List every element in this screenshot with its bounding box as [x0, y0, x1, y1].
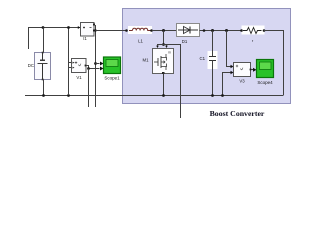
inductor L1 — [128, 26, 152, 34]
wire mosfet drain stub — [158, 45, 164, 46]
wire mosfet source to bus — [163, 74, 165, 96]
ground bus wire — [25, 95, 284, 97]
node junction scope tap — [94, 62, 97, 65]
node R left terminal — [240, 29, 243, 32]
wire V3 plus branch — [227, 31, 231, 67]
wire V1 plus stub — [69, 62, 73, 64]
DC voltage source — [35, 52, 51, 81]
svg-text:Scope1: Scope1 — [104, 76, 120, 81]
node L1 right terminal — [150, 29, 153, 32]
node junction V1 output — [87, 67, 90, 70]
node junction mosfet branch — [162, 29, 165, 32]
resistor R — [242, 26, 265, 35]
wire DC source top — [43, 28, 45, 53]
wire V1 signal down below — [88, 69, 90, 108]
node bus junction DC — [42, 94, 45, 97]
svg-text:V3: V3 — [239, 79, 245, 84]
wire mosfet top branch — [163, 31, 165, 45]
svg-text:V1: V1 — [76, 75, 82, 80]
svg-text:I1: I1 — [83, 36, 87, 41]
capacitor C1 — [208, 31, 218, 96]
node bus junction C1 — [211, 94, 214, 97]
svg-text:Boost Converter: Boost Converter — [210, 109, 265, 118]
Boost Converter area box — [123, 9, 291, 104]
voltage measurement V3 — [234, 63, 252, 77]
node D1 right terminal — [203, 29, 206, 32]
node bus junction V3 — [221, 94, 224, 97]
node junction main line — [94, 29, 96, 31]
current measurement I1 — [78, 23, 95, 37]
wire R to right drop — [264, 31, 284, 96]
wire DC source bottom — [43, 80, 45, 95]
node bus junction V1 — [67, 94, 70, 97]
node R right terminal — [263, 29, 266, 32]
svg-text:DC: DC — [28, 63, 34, 68]
node bus junction mosfet — [162, 94, 165, 97]
node junction V3 — [225, 29, 228, 32]
svg-text:Scope4: Scope4 — [257, 80, 273, 85]
scope Scope1 — [100, 57, 121, 74]
svg-text:m: m — [168, 51, 171, 55]
node junction mosfet gate tap — [162, 43, 165, 46]
wire I1 signal vertical — [95, 25, 97, 107]
node junction top V1 branch — [67, 26, 70, 29]
wire L1 to D1 — [152, 30, 176, 32]
wire V1 branch vertical — [68, 28, 70, 96]
wire measurement tap to bottom — [164, 45, 181, 119]
node junction C1 — [211, 29, 214, 32]
wire V3 output — [251, 69, 253, 71]
wire D1 to C1 node — [200, 30, 242, 32]
wire scope1 input1 — [96, 63, 100, 65]
wire V1 output to scope — [86, 66, 100, 69]
svg-text:C1: C1 — [200, 56, 206, 61]
wire V3 minus branch — [223, 73, 231, 96]
wire main into box — [96, 30, 127, 32]
wire top-left stub — [29, 28, 81, 50]
voltage measurement V1 — [72, 59, 87, 73]
scope Scope4 — [253, 60, 274, 78]
mosfet M1 — [153, 49, 174, 75]
node junction above DC source — [42, 26, 45, 29]
diode D1 — [177, 24, 200, 37]
svg-text:D1: D1 — [182, 39, 188, 44]
svg-text:L1: L1 — [138, 39, 143, 44]
wire V1 minus stub — [69, 67, 73, 69]
svg-text:M1: M1 — [143, 58, 150, 63]
wire m port stub — [166, 45, 168, 46]
node L1 left terminal — [125, 29, 128, 32]
